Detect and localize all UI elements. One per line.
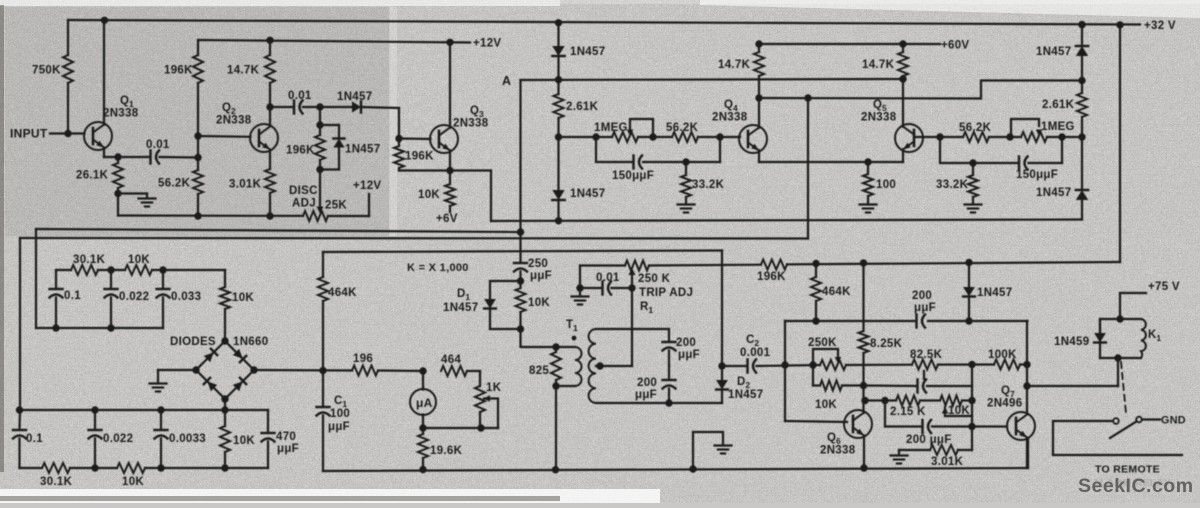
capacitor C2 0.001	[746, 360, 748, 373]
svg-text:1N457: 1N457	[570, 188, 605, 200]
wire 321 line	[785, 320, 915, 322]
svg-text:GND: GND	[1161, 415, 1186, 427]
node 14.7K Q4 top	[755, 40, 762, 47]
svg-text:ADJ: ADJ	[292, 198, 316, 210]
node meter top	[419, 367, 426, 374]
resistor 2.61K left	[554, 94, 564, 118]
svg-text:μμF: μμF	[277, 443, 299, 455]
node Q7 base row top	[968, 397, 975, 404]
node 56.2K bottom rail	[194, 212, 201, 219]
wire GND contact	[1142, 418, 1160, 420]
diode D2 1N457	[721, 366, 723, 380]
potentiometer 1MEG Q4	[612, 132, 638, 142]
wire to T1 primary top	[521, 329, 576, 347]
resistor 14.7K Q2 collector load	[269, 40, 271, 55]
node Q4 base junction	[716, 133, 723, 140]
node C2 right	[781, 361, 788, 368]
svg-text:196K: 196K	[286, 145, 315, 157]
svg-text:1N457: 1N457	[977, 287, 1012, 299]
svg-text:19.6K: 19.6K	[430, 445, 463, 457]
node Q2 collector cap tap	[266, 103, 273, 110]
resistor 10K feedback	[813, 384, 820, 386]
node 1MEG Q5 left	[1006, 133, 1013, 140]
capacitor 0.022 lower	[94, 410, 96, 429]
resistor 196K Q3	[398, 139, 400, 147]
resistor 19.6K	[422, 428, 424, 434]
node A to 2.61K chain	[555, 76, 562, 83]
svg-text:10K: 10K	[233, 435, 255, 447]
svg-text:56.2K: 56.2K	[158, 178, 191, 190]
svg-text:33.2K: 33.2K	[692, 179, 725, 191]
wire Q4 Q5 emitter rail	[758, 150, 760, 162]
resistor 10K lower	[117, 463, 145, 473]
capacitor 0.01 trip	[580, 287, 601, 289]
wire Q2 base	[198, 135, 251, 138]
node 0.022 lower top	[91, 406, 98, 413]
wire +12V return stub	[368, 194, 370, 216]
node Q3 collector +12V rail	[446, 39, 453, 46]
wire bridge to ground	[158, 369, 196, 371]
node bridge left	[192, 366, 199, 373]
node 26.1K bottom	[114, 190, 121, 197]
darker scan region top-left	[5, 7, 390, 236]
potentiometer 1MEG Q5	[1011, 119, 1039, 137]
diode bridge top-right	[233, 349, 246, 362]
svg-text:μμF: μμF	[635, 389, 657, 401]
node 2.15K left	[861, 397, 868, 404]
capacitor 0.0033	[160, 410, 162, 429]
diode 1N457 output	[968, 263, 970, 288]
wire 825 to bottom rail	[555, 386, 557, 469]
node Q1 collector junction	[101, 17, 108, 24]
node 100 ohm top	[864, 158, 871, 165]
capacitor C1 100uuF	[322, 371, 324, 407]
node Q7 base	[968, 423, 975, 430]
capacitor 250uuF	[514, 262, 527, 264]
wire meter bottom	[422, 415, 424, 429]
ground 33.2K Q5	[965, 203, 982, 205]
svg-text:+6V: +6V	[436, 213, 458, 225]
wire 2.15K row	[864, 399, 897, 401]
resistor 30.1K lower	[42, 463, 70, 473]
transistor Q2 2N338	[250, 124, 278, 152]
capacitor 200uuF upper secondary	[663, 341, 676, 343]
node 0.0033 top	[157, 406, 164, 413]
wire Q1 emitter	[103, 148, 105, 157]
node bridge top	[221, 337, 228, 344]
resistor 82.5K	[912, 360, 938, 370]
svg-text:TO REMOTE: TO REMOTE	[1095, 464, 1160, 476]
wire Q7 collector	[1026, 321, 1028, 414]
svg-text:μμF: μμF	[914, 302, 936, 314]
svg-text:200: 200	[676, 337, 696, 349]
svg-text:0.0033: 0.0033	[169, 433, 206, 445]
ground 33.2K Q4	[678, 203, 695, 205]
node Q4 collector feedback tap	[755, 94, 762, 101]
resistor 33.2K Q4	[685, 162, 687, 175]
svg-text:10K: 10K	[948, 405, 970, 417]
resistor 10K bridge load	[224, 410, 226, 426]
node Q6 emitter rail	[860, 464, 867, 471]
wire contact to remote	[1053, 421, 1182, 455]
resistor 2.61K right	[1077, 93, 1087, 117]
svg-text:14.7K: 14.7K	[227, 65, 260, 77]
node 8.25K top	[860, 259, 867, 266]
svg-text:196K: 196K	[405, 151, 434, 163]
svg-text:150μμF: 150μμF	[612, 170, 654, 182]
node 1MEG left	[592, 133, 599, 140]
wire long vertical to line B	[807, 98, 809, 239]
node right chain top	[1078, 21, 1085, 28]
node ground jog	[689, 465, 696, 472]
ground bridge	[150, 382, 167, 384]
node +32V rail right dot	[1116, 21, 1123, 28]
svg-text:56.2K: 56.2K	[959, 122, 992, 134]
resistor 3.01K Q7	[930, 445, 958, 455]
svg-text:470: 470	[276, 431, 296, 443]
svg-text:30.1K: 30.1K	[73, 254, 106, 266]
svg-text:25K: 25K	[325, 200, 347, 212]
svg-text:μμF: μμF	[678, 349, 700, 361]
wire upper RC top rail	[56, 269, 71, 271]
wire Q7 to relay	[1027, 385, 1118, 387]
svg-text:82.5K: 82.5K	[910, 349, 943, 361]
node 464K bottom bridge line	[319, 367, 326, 374]
node 200uuF row left	[881, 397, 888, 404]
node 19.6K bottom rail	[419, 466, 426, 473]
diode 1N457 shunt	[320, 124, 339, 126]
node lower cap junction	[668, 366, 670, 379]
relay contact right	[1136, 417, 1142, 423]
wire DISC ADJ wiper	[319, 170, 321, 207]
potentiometer 250K TRIP ADJ R1	[625, 261, 649, 271]
svg-text:2N338: 2N338	[820, 445, 856, 457]
wire Q7 emitter	[1026, 438, 1028, 468]
capacitor 470uuF	[267, 410, 269, 432]
node relay top	[1116, 315, 1123, 322]
scan edge artifacts	[0, 0, 560, 6]
node 250K-3 left	[809, 361, 816, 368]
node lower RC top-left	[16, 406, 23, 413]
diode D1 1N457 loop	[490, 281, 521, 299]
svg-text:+32 V: +32 V	[1144, 20, 1176, 32]
svg-text:0.01: 0.01	[596, 272, 620, 284]
transistor Q4 2N338	[739, 125, 767, 153]
node C2 line junction	[718, 362, 725, 369]
node 0.022 upper top	[107, 266, 114, 273]
contact arm	[1110, 421, 1137, 438]
node 464K-2 top	[812, 260, 819, 267]
ground trip adj	[579, 288, 581, 296]
node 825 rail	[552, 466, 559, 473]
svg-text:1N457: 1N457	[570, 46, 605, 58]
node 33.2K top Q4	[682, 158, 689, 165]
node bridge right	[250, 366, 257, 373]
svg-text:1N457: 1N457	[345, 144, 380, 156]
node Q3 base 196K top	[395, 135, 402, 142]
wire wiper to 250K	[631, 271, 633, 288]
node 1MEG Q5 right	[1058, 133, 1065, 140]
resistor 10K Q3 emitter	[449, 171, 451, 185]
node 14.7K top	[266, 37, 273, 44]
svg-text:56.2K: 56.2K	[666, 122, 699, 134]
T1 phasing dot	[572, 336, 577, 341]
svg-text:196K: 196K	[757, 271, 786, 283]
resistor 30.1K upper	[71, 265, 98, 275]
svg-text:1N457: 1N457	[1036, 46, 1071, 58]
potentiometer 1K	[475, 386, 485, 412]
node lower 0.0033 bottom	[157, 464, 164, 471]
wire C2 line	[722, 365, 746, 367]
svg-text:INPUT: INPUT	[10, 127, 48, 141]
node 196K/1N457 pair top	[316, 103, 323, 110]
resistor 14.7K Q5	[902, 44, 904, 52]
wire main bottom rail	[323, 468, 1028, 471]
svg-text:μA: μA	[416, 396, 433, 410]
node relay bottom	[1114, 354, 1121, 361]
diode 1N457 series	[352, 101, 361, 112]
wire lower RC top rail	[20, 409, 269, 411]
svg-text:100: 100	[330, 408, 350, 420]
resistor 2.15K	[896, 396, 920, 406]
svg-text:2.15 K: 2.15 K	[890, 406, 926, 418]
wire +12V rail upper	[198, 40, 470, 43]
svg-text:3.01K: 3.01K	[931, 456, 964, 468]
capacitor feedback lower	[916, 380, 918, 393]
svg-text:2N338: 2N338	[861, 112, 897, 124]
svg-text:1K: 1K	[486, 382, 502, 394]
node Q7 collector 100K	[1023, 361, 1030, 368]
resistor 10K upper	[125, 265, 152, 275]
node D1 top	[519, 272, 521, 282]
node 82.5K right	[968, 361, 975, 368]
svg-text:750K: 750K	[32, 65, 61, 77]
node Q5 base junction	[936, 133, 943, 140]
resistor 196K Q2 bias upper	[197, 40, 199, 55]
wire center tap to wiper	[596, 365, 632, 367]
svg-text:1N457: 1N457	[443, 302, 478, 314]
capacitor 150uuF Q4	[632, 156, 634, 169]
potentiometer 25K DISC ADJ	[303, 211, 328, 221]
svg-text:825: 825	[529, 365, 549, 377]
svg-text:1N459: 1N459	[1054, 336, 1089, 348]
wire line C 464K to C2 node	[323, 251, 722, 253]
wire emitter row Q3	[399, 169, 491, 171]
node lower 10K bottom	[221, 464, 228, 471]
svg-text:+60V: +60V	[941, 40, 969, 52]
node right chain mid	[1078, 133, 1085, 140]
svg-text:+12V: +12V	[473, 38, 501, 50]
node 33.2K Q5 top	[969, 159, 976, 166]
svg-text:464K: 464K	[822, 286, 851, 298]
node 26.1K top	[114, 153, 121, 160]
svg-text:10K: 10K	[232, 292, 254, 304]
svg-text:464: 464	[441, 354, 461, 366]
resistor 56.2K	[193, 170, 203, 194]
wire lower RC bottom rail	[20, 467, 43, 469]
node Q2 base tap	[194, 132, 201, 139]
svg-text:DISC: DISC	[289, 185, 318, 197]
wire +60V rail	[759, 43, 940, 45]
svg-text:K = X 1,000: K = X 1,000	[407, 262, 469, 274]
wire A vertical to detector	[519, 80, 521, 262]
resistor 196K trip line	[761, 260, 787, 270]
diode bridge top-left	[204, 349, 217, 362]
node Q5 collector A-line	[899, 75, 906, 82]
resistor 33.2K Q5	[972, 163, 974, 175]
svg-text:1MEG: 1MEG	[1041, 121, 1075, 133]
svg-text:0.022: 0.022	[103, 433, 133, 445]
svg-text:TRIP ADJ: TRIP ADJ	[639, 287, 693, 299]
node Q3 emitter junction	[446, 167, 453, 174]
diode 1N457 top left chain	[552, 46, 564, 56]
relay K1 loop	[1100, 319, 1141, 358]
ground 3.01K	[898, 450, 900, 455]
node 808 top	[804, 94, 811, 101]
wire bridge output	[254, 369, 352, 372]
node line-A termination	[517, 228, 524, 235]
svg-text:10K: 10K	[122, 476, 144, 488]
resistor 56.2K Q5	[963, 132, 989, 142]
wire 3.01K row	[899, 449, 930, 451]
wire 150pF loop Q4	[596, 137, 632, 162]
svg-text:150μμF: 150μμF	[1016, 169, 1058, 181]
wire Q7 base	[972, 425, 1007, 427]
meter uA	[422, 371, 424, 390]
svg-text:2.61K: 2.61K	[1042, 99, 1075, 111]
svg-text:0.1: 0.1	[26, 433, 43, 445]
svg-text:1N457: 1N457	[728, 389, 763, 401]
resistor 3.01K	[265, 169, 275, 193]
wire secondary top	[596, 329, 669, 341]
diode bridge bottom-left	[204, 378, 217, 391]
resistor 196K shunt	[319, 125, 321, 135]
dashed relay link	[1121, 362, 1126, 413]
capacitor 0.033	[162, 270, 164, 288]
capacitor 200uuF feedback top	[915, 315, 917, 328]
wire 196 to meter node	[378, 369, 423, 372]
node Q7 relay tap	[1023, 382, 1030, 389]
svg-text:250 K: 250 K	[638, 273, 671, 285]
wire bridge bottom drop	[224, 399, 226, 410]
svg-text:+75 V: +75 V	[1148, 281, 1180, 293]
node 464K bottom	[812, 317, 819, 324]
svg-text:1N457: 1N457	[337, 91, 372, 103]
node input-750K junction	[64, 130, 71, 137]
potentiometer 10K Q7	[940, 396, 962, 406]
svg-text:26.1K: 26.1K	[76, 170, 109, 182]
wire to ground Q1	[118, 192, 147, 194]
node 1N457 output top	[965, 259, 972, 266]
wire Q6 base drop	[784, 321, 786, 421]
transformer T1 primary	[575, 347, 582, 386]
node 0.033 top	[159, 266, 166, 273]
wire lower cap path	[864, 384, 917, 387]
wire Q3 base	[399, 137, 431, 140]
svg-text:200 μμF: 200 μμF	[906, 434, 952, 446]
wire Q6 emitter	[863, 436, 865, 468]
svg-text:200: 200	[637, 377, 657, 389]
node 825 bottom	[552, 382, 559, 389]
ground Q1 stage	[139, 197, 156, 199]
wire Q2 emitter to 3.01K	[269, 150, 271, 169]
capacitor 0.01 Q1-Q2 coupling	[149, 151, 151, 164]
svg-text:196: 196	[353, 353, 373, 365]
svg-text:0.1: 0.1	[64, 290, 81, 302]
bridge 1N660 diamond	[196, 341, 254, 399]
wire Q4 base line	[559, 136, 613, 138]
diode 1N457 bottom left chain	[552, 190, 564, 200]
svg-text:0.01: 0.01	[288, 90, 312, 102]
svg-text:14.7K: 14.7K	[862, 59, 895, 71]
svg-text:DIODES: DIODES	[170, 336, 216, 348]
ground bottom rail marker	[693, 432, 723, 469]
node 0.01 trip left	[576, 284, 583, 291]
resistor 464K output	[815, 264, 817, 278]
node chain top rail	[555, 19, 562, 26]
svg-text:10K: 10K	[528, 297, 550, 309]
node 0.01 to divider	[194, 154, 201, 161]
svg-text:30.1K: 30.1K	[40, 476, 73, 488]
svg-text:1N457: 1N457	[1036, 187, 1071, 199]
transistor Q1 2N338	[84, 122, 112, 150]
node 1MEG wiper right	[649, 133, 656, 140]
svg-text:10K: 10K	[128, 254, 150, 266]
node 3.01K bottom	[266, 212, 273, 219]
node D1 bottom	[517, 325, 524, 332]
node 1N457 bottom	[965, 317, 972, 324]
svg-text:2N338: 2N338	[453, 118, 489, 130]
node meter bottom	[419, 424, 426, 431]
resistor 100K	[994, 360, 1020, 370]
transistor Q6 2N338	[844, 410, 872, 438]
resistor 10K detector	[519, 281, 521, 288]
svg-text:SeekIC.com: SeekIC.com	[1078, 475, 1194, 497]
svg-text:250K: 250K	[808, 337, 837, 349]
wire 464 to 1K pot	[467, 370, 480, 372]
potentiometer 250K output	[820, 360, 846, 370]
svg-text:0.01: 0.01	[146, 139, 170, 151]
ground 100 ohm	[860, 203, 877, 205]
node wiper cap junction	[628, 284, 635, 291]
node chain mid left	[555, 133, 562, 140]
svg-text:0.033: 0.033	[171, 291, 201, 303]
wire rail corner to Q7 emitter	[1027, 439, 1029, 468]
svg-text:1N660: 1N660	[233, 336, 268, 348]
svg-text:10K: 10K	[418, 189, 440, 201]
resistor 750K	[67, 20, 69, 55]
wire top rail	[68, 20, 1140, 25]
wire 825 bottom to coil	[556, 385, 575, 387]
svg-text:μμF: μμF	[530, 270, 552, 282]
capacitor 200uuF Q7	[921, 420, 923, 433]
transistor Q3 2N338	[430, 125, 458, 153]
wire +32V drop to output rail	[1119, 25, 1121, 262]
svg-text:8.25K: 8.25K	[870, 338, 903, 350]
svg-text:100K: 100K	[988, 349, 1017, 361]
svg-text:464K: 464K	[328, 287, 357, 299]
chain 1N457/2.61K/1N457 left	[557, 23, 559, 46]
transistor Q7 2N496	[1007, 412, 1035, 440]
wire line A upper RC to A-node	[36, 229, 521, 232]
wire secondary bottom	[596, 402, 722, 404]
transistor Q5 2N338 mirrored	[895, 124, 923, 152]
svg-text:196K: 196K	[164, 65, 193, 77]
svg-text:33.2K: 33.2K	[936, 179, 969, 191]
svg-text:μμF: μμF	[328, 421, 350, 433]
resistor 14.7K Q4	[758, 44, 760, 52]
resistor 26.1K	[117, 157, 119, 163]
